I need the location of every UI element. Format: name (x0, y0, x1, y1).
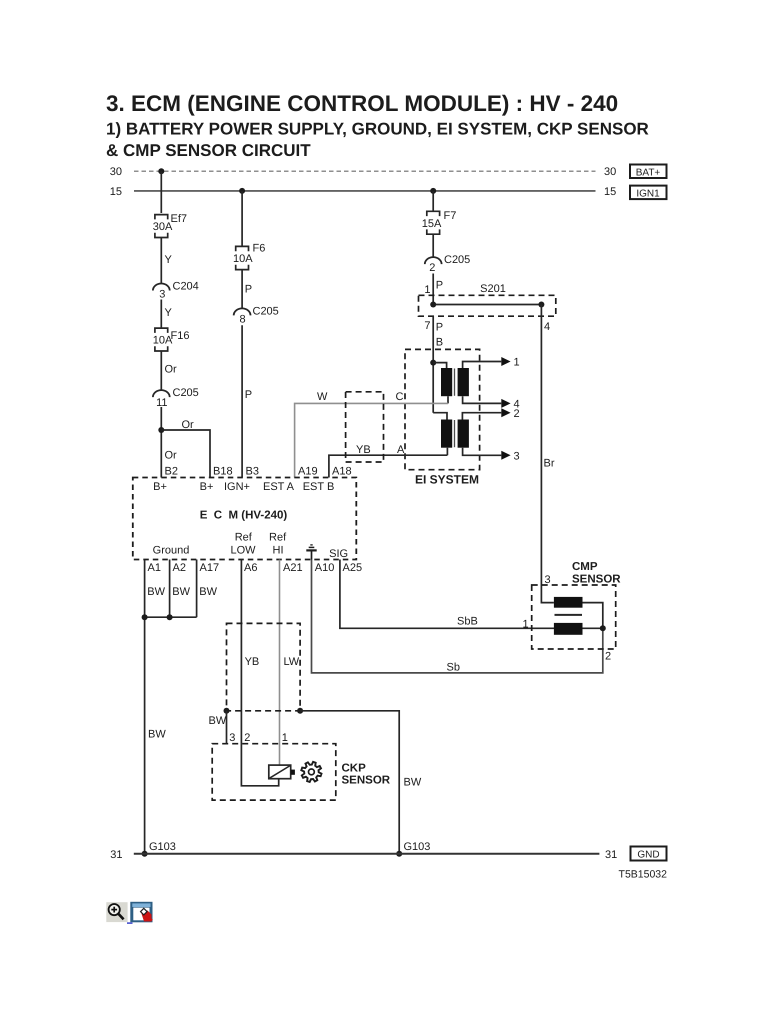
svg-text:A: A (397, 444, 405, 456)
junction dot A2 tie (167, 614, 173, 620)
svg-text:A17: A17 (200, 562, 220, 574)
coil1 secondary winding (458, 368, 469, 396)
svg-text:& CMP SENSOR CIRCUIT: & CMP SENSOR CIRCUIT (106, 141, 311, 160)
CMP node dot (600, 625, 606, 631)
svg-text:YB: YB (245, 656, 260, 668)
arrow output 3 (501, 451, 510, 460)
bus 30 line (134, 170, 596, 172)
svg-text:BW: BW (147, 586, 165, 598)
CKP sensor element body (269, 765, 291, 779)
svg-text:15A: 15A (422, 218, 442, 230)
svg-text:A2: A2 (173, 562, 186, 574)
svg-text:2: 2 (605, 651, 611, 663)
svg-text:3: 3 (514, 451, 520, 463)
svg-text:Ref: Ref (235, 532, 253, 544)
wire A6 YB to CKP pin2 (241, 560, 278, 786)
wire A21 LW to CKP pin1 (279, 560, 281, 766)
svg-text:A10: A10 (315, 562, 335, 574)
CMP SENSOR box (532, 585, 616, 649)
coil2 primary winding (441, 420, 452, 448)
svg-text:CKP: CKP (342, 763, 367, 775)
bus 15 line (134, 190, 596, 192)
svg-text:EI SYSTEM: EI SYSTEM (415, 473, 479, 487)
svg-text:B2: B2 (165, 466, 178, 478)
wire from A18 (EST B) to coil2 (329, 455, 448, 477)
fuse Ef7 30A (155, 215, 168, 238)
junction dot shield wire at G103 (396, 851, 402, 857)
unnamed connector dashed box on EST wires (346, 392, 384, 462)
svg-text:T5B15032: T5B15032 (619, 869, 668, 881)
junction dot bus15/col2 (239, 188, 245, 194)
svg-text:2: 2 (244, 732, 250, 744)
wire C204 to F16 (160, 300, 162, 329)
fuse F7 15A (427, 211, 440, 234)
ECM box (133, 478, 356, 560)
wire shield BW to G103 (300, 711, 399, 854)
GND box (631, 847, 667, 861)
svg-text:F6: F6 (253, 243, 266, 255)
wire W from A19 (EST A) to coil1 (295, 403, 448, 477)
svg-text:A19: A19 (298, 466, 318, 478)
svg-text:A1: A1 (148, 562, 161, 574)
CKP sensor element nub (291, 770, 295, 775)
svg-text:G103: G103 (149, 841, 176, 853)
connector C205 pin 11 (153, 390, 170, 397)
svg-text:B: B (436, 337, 443, 349)
connector C205 pin 2 (425, 257, 442, 264)
S201 internal bar (433, 304, 541, 306)
wire B node down to coil2 primary top (433, 413, 447, 420)
junction dot Or branch (158, 427, 164, 433)
wire A10 Sb to CMP pin2 (312, 560, 603, 673)
svg-text:W: W (317, 391, 328, 403)
svg-text:A25: A25 (343, 562, 363, 574)
shield ground symbol at A10 (306, 545, 316, 560)
coil1 core line (454, 369, 456, 396)
S201 left node dot (430, 302, 436, 308)
svg-text:P: P (245, 389, 252, 401)
svg-text:31: 31 (110, 849, 122, 861)
svg-text:1) BATTERY POWER SUPPLY, GROUN: 1) BATTERY POWER SUPPLY, GROUND, EI SYST… (106, 120, 649, 139)
shield dashed box on CKP wires (227, 623, 301, 710)
coil2 secondary bottom to output 3 (463, 448, 502, 456)
S201 right node dot (538, 302, 544, 308)
svg-text:YB: YB (356, 444, 371, 456)
coil2 secondary winding (458, 420, 469, 448)
wire B node to coil1 primary top (433, 363, 446, 369)
G103 ground bus (134, 853, 600, 855)
svg-text:Or: Or (165, 450, 178, 462)
wire A25 SbB to CMP pin1 (340, 560, 603, 629)
svg-text:BW: BW (148, 729, 166, 741)
svg-text:3: 3 (229, 732, 235, 744)
wire branch to B18 (161, 430, 210, 478)
svg-text:Ref: Ref (269, 532, 287, 544)
svg-text:HI: HI (273, 545, 284, 557)
wire F6 to C205 pin8 (241, 270, 243, 309)
svg-text:B+: B+ (153, 481, 167, 493)
svg-text:Y: Y (165, 254, 173, 266)
svg-text:1: 1 (522, 618, 528, 630)
svg-text:10A: 10A (233, 253, 253, 265)
svg-text:A18: A18 (332, 466, 352, 478)
svg-text:3: 3 (159, 289, 165, 301)
svg-text:2: 2 (514, 408, 520, 420)
CMP magnet bar (554, 623, 583, 635)
coil1 secondary bottom to output 4 (463, 396, 502, 403)
wire col1 bus30 to fuse Ef7 (160, 171, 162, 213)
svg-text:8: 8 (239, 314, 245, 326)
svg-text:15: 15 (604, 186, 616, 198)
wire A1 BW to G103 (144, 560, 146, 854)
svg-text:GND: GND (637, 850, 659, 861)
EI B node dot (430, 360, 436, 366)
svg-text:SENSOR: SENSOR (572, 573, 621, 585)
svg-text:F16: F16 (171, 330, 190, 342)
svg-text:1: 1 (282, 732, 288, 744)
svg-text:IGN1: IGN1 (636, 188, 660, 199)
wire F16 to C205 (160, 351, 162, 390)
svg-text:30: 30 (110, 166, 122, 178)
toolbar icon: page zoom with red marker (127, 902, 153, 924)
svg-text:B+: B+ (200, 481, 214, 493)
svg-text:LW: LW (284, 656, 300, 668)
svg-text:3: 3 (545, 574, 551, 586)
svg-text:15: 15 (110, 186, 122, 198)
coil1 secondary top to output 1 (463, 362, 502, 369)
svg-text:3. ECM (ENGINE CONTROL MODULE): 3. ECM (ENGINE CONTROL MODULE) : HV - 24… (106, 91, 618, 116)
coil1 primary bottom stub (447, 396, 449, 403)
wire F7 to C205 pin2 (432, 234, 434, 257)
shield node dot left (224, 708, 230, 714)
svg-text:Or: Or (165, 364, 178, 376)
svg-text:1: 1 (424, 284, 430, 296)
svg-text:CMP: CMP (572, 561, 598, 573)
svg-text:F7: F7 (444, 210, 457, 222)
CMP coil winding (554, 597, 583, 608)
connector C205 pin 8 (234, 308, 251, 315)
wire A2 BW (169, 560, 171, 618)
svg-text:IGN+: IGN+ (224, 481, 250, 493)
wire shield to CKP pin3 (226, 711, 228, 744)
wire S201-4 down to CMP (Br) (541, 305, 554, 603)
fuse F16 10A (155, 328, 168, 351)
CKP sensor element slash (269, 766, 290, 779)
svg-text:Sb: Sb (447, 662, 460, 674)
BAT+ box (630, 165, 667, 179)
svg-text:SENSOR: SENSOR (342, 775, 391, 787)
wire col3 bus15 to fuse F7 (432, 191, 434, 211)
svg-text:SIG: SIG (329, 548, 348, 560)
svg-text:BW: BW (404, 777, 422, 789)
svg-text:31: 31 (605, 849, 617, 861)
arrow output 1 (501, 357, 510, 366)
svg-text:4: 4 (544, 321, 550, 333)
wire S201-7 down to EI (432, 316, 434, 413)
svg-text:BW: BW (172, 586, 190, 598)
junction dot bus30/col1 (158, 168, 164, 174)
svg-text:BW: BW (199, 586, 217, 598)
svg-text:E C M (HV-240): E C M (HV-240) (200, 510, 288, 522)
splice S201 box (419, 295, 556, 316)
svg-text:S201: S201 (480, 283, 506, 295)
coil2 secondary top to output 2 (462, 413, 501, 420)
svg-text:P: P (245, 284, 252, 296)
svg-text:EST B: EST B (303, 481, 335, 493)
svg-text:2: 2 (429, 262, 435, 274)
svg-text:LOW: LOW (230, 545, 256, 557)
svg-text:C205: C205 (253, 306, 279, 318)
EI SYSTEM box (405, 349, 480, 469)
svg-text:C205: C205 (444, 254, 470, 266)
connector C204 pin 3 (153, 284, 170, 291)
wire A17 BW (196, 560, 198, 618)
svg-text:A21: A21 (283, 562, 303, 574)
svg-text:A6: A6 (244, 562, 257, 574)
wire Ef7 to C204 (160, 238, 162, 284)
coil2 primary bottom stub (446, 448, 448, 456)
CMP core line (555, 614, 583, 616)
coil2 core line (454, 420, 456, 447)
svg-text:7: 7 (424, 320, 430, 332)
IGN1 box (630, 186, 667, 200)
svg-text:30: 30 (604, 166, 616, 178)
arrow output 4 (501, 399, 510, 408)
arrow output 2 (501, 408, 510, 417)
svg-text:C205: C205 (173, 387, 199, 399)
wire CMP coil right to pin2 node (583, 603, 603, 629)
wire C205 to ECM B2 (160, 407, 162, 478)
svg-text:EST A: EST A (263, 481, 295, 493)
CKP reluctor gear (301, 762, 321, 782)
svg-text:P: P (436, 322, 443, 334)
svg-text:Ground: Ground (153, 545, 190, 557)
coil1 primary winding (441, 368, 452, 396)
svg-text:1: 1 (514, 357, 520, 369)
svg-text:BAT+: BAT+ (636, 167, 661, 178)
wire col2 bus15 to fuse F6 (241, 191, 243, 246)
ground tie bar A1-A2-A17 (145, 616, 197, 618)
junction dot A1 at G103 (142, 851, 148, 857)
svg-text:B3: B3 (246, 466, 259, 478)
junction dot A1 tie (142, 614, 148, 620)
svg-text:C: C (396, 391, 404, 403)
junction dot bus15/col3 (430, 188, 436, 194)
svg-text:SbB: SbB (457, 615, 478, 627)
svg-text:Y: Y (165, 307, 173, 319)
svg-text:Ef7: Ef7 (171, 213, 188, 225)
wire C205-2 to S201 (432, 274, 434, 305)
wire C205-8 to ECM B3 (241, 325, 243, 477)
svg-text:P: P (436, 280, 443, 292)
svg-text:G103: G103 (404, 841, 431, 853)
fuse F6 10A (236, 246, 249, 269)
svg-text:BW: BW (209, 715, 227, 727)
shield node dot right (297, 708, 303, 714)
CKP SENSOR box (212, 744, 336, 800)
svg-text:B18: B18 (213, 466, 233, 478)
svg-text:Br: Br (544, 458, 555, 470)
svg-text:C204: C204 (173, 281, 199, 293)
toolbar icon: zoom magnifier (106, 902, 127, 922)
